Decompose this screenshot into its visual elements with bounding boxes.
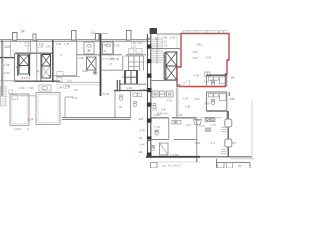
red unit outline — [177, 34, 229, 87]
svg-text:2.0: 2.0 — [74, 89, 78, 92]
wire wall y82.5 — [56, 82, 100, 84]
bath box 1 — [84, 42, 94, 54]
shower R1 — [220, 77, 227, 84]
bathroom R2 bottom wall — [207, 110, 228, 112]
bay window bump 2 — [225, 139, 232, 147]
fixture right cell b — [138, 93, 142, 97]
oval fixture — [63, 85, 69, 88]
svg-text:1.4: 1.4 — [211, 141, 215, 145]
svg-text:0.40: 0.40 — [19, 86, 25, 90]
terrace 1 inner border — [12, 96, 27, 124]
wire dark wall y53.2 — [15, 52, 53, 54]
partial partition L — [65, 97, 74, 118]
svg-text:1:100 . . . . m: 1:100 . . . . m — [14, 127, 29, 131]
big lower-left room bottom double wall — [62, 118, 131, 120]
bath box 2 sink — [106, 44, 110, 47]
bath box 1 sink — [87, 44, 91, 47]
toilet cell 1 — [120, 95, 123, 100]
svg-text:0.4 0.4: 0.4 0.4 — [22, 76, 31, 80]
service shaft small boxes — [129, 49, 135, 54]
kitchen marks — [172, 121, 181, 125]
elevator shaft 0 with X — [19, 55, 29, 66]
kitchen cluster box 3 — [167, 91, 174, 97]
svg-text:2.89: 2.89 — [141, 88, 147, 92]
wall y139.5 — [147, 139, 197, 141]
shower box with diagonal — [160, 143, 169, 155]
elevator shaft C upper with X — [166, 52, 177, 66]
wire interior wall y82 mid-left — [15, 80, 61, 82]
wire window ticks along top wall — [2, 40, 146, 42]
wire wall y70.2 — [101, 69, 123, 71]
wire wall y54.8 right part — [102, 54, 147, 56]
svg-text:N5Z: N5Z — [195, 141, 201, 145]
bath box 1 cross — [88, 49, 91, 52]
bathroom R2 outline — [207, 92, 228, 111]
sink oval — [42, 86, 48, 90]
fixture right cell a — [133, 93, 137, 97]
svg-text:0.46: 0.46 — [161, 109, 166, 112]
svg-text:3.04: 3.04 — [5, 45, 11, 49]
stair top dark block — [150, 28, 157, 34]
fixture cluster 2 — [57, 78, 62, 82]
wire dark double wall x100.5 — [100, 34, 102, 97]
wire room divider x10.5 — [10, 40, 12, 57]
chimney protrusion 4 — [96, 34, 100, 41]
toilet mid room — [153, 104, 156, 109]
shower R2 — [220, 94, 227, 101]
svg-text:0.40: 0.40 — [56, 42, 62, 46]
svg-text:2.99: 2.99 — [78, 56, 84, 60]
wire dark wall x52.8 — [52, 40, 54, 82]
wire interior wall y80 left — [0, 80, 15, 82]
svg-text:1.03: 1.03 — [114, 44, 120, 48]
svg-text:0.27: 0.27 — [199, 124, 205, 128]
lower apartment wall y117.8 — [150, 117, 196, 119]
wire wall x122.8 — [122, 56, 124, 70]
door swing inside red unit — [184, 81, 190, 87]
svg-text:0.46: 0.46 — [193, 50, 199, 54]
elevator shaft C lower with X — [166, 66, 177, 80]
svg-text:47: 47 — [109, 62, 113, 66]
wire wall y76.5 — [56, 76, 80, 78]
svg-text:0.46: 0.46 — [140, 143, 146, 147]
red tick right wall — [228, 92, 230, 96]
lower strip box — [217, 163, 224, 168]
faint neighbour bottom line — [231, 158, 254, 160]
window dashes right wall upper — [221, 128, 227, 132]
wire wall to terrace — [20, 95, 36, 97]
stair mid divider — [156, 38, 158, 64]
toilet R2 — [212, 100, 215, 105]
gray box above red line — [183, 31, 189, 34]
svg-text:4.78: 4.78 — [140, 129, 146, 133]
svg-text:2.88: 2.88 — [154, 113, 160, 117]
terrace inner border — [38, 95, 58, 123]
bath box 2 — [103, 42, 114, 54]
svg-text:7.73: 7.73 — [154, 125, 160, 129]
elevator shaft 0 side bars — [18, 53, 30, 76]
svg-text:0.43: 0.43 — [170, 36, 176, 40]
wire left outer wall — [1, 40, 3, 96]
wall x168.8 — [168, 118, 170, 140]
wire dark double wall x118 — [116, 80, 118, 92]
wire wall y80.5 center — [150, 80, 177, 82]
bottom dark wall — [146, 156, 200, 158]
wire corridor wall x36.8 lower — [36, 53, 38, 81]
star symbol — [93, 70, 98, 75]
elevator shaft 0 lower box — [19, 66, 29, 75]
svg-text:1.75: 1.75 — [211, 123, 217, 127]
wall x196.8 — [196, 118, 198, 157]
wire left wall inner line — [2, 40, 4, 96]
svg-text:8.79: 8.79 — [205, 102, 211, 106]
wire room divider x28 — [27, 40, 29, 53]
wire wall y48 — [150, 48, 180, 50]
svg-text:04Z: 04Z — [230, 97, 235, 101]
terrace rectangle — [36, 93, 60, 125]
sink console top — [39, 85, 51, 91]
svg-text:2.08: 2.08 — [162, 36, 168, 40]
bathroom R2 fixtures — [209, 94, 219, 97]
svg-text:10: 10 — [139, 136, 143, 140]
wire divider x177 — [176, 88, 178, 118]
lower strip box 2 — [227, 163, 233, 168]
wire divider x112.5 — [112, 40, 114, 55]
svg-text:0.40: 0.40 — [16, 65, 22, 69]
toilet lower 2 — [151, 146, 154, 151]
wire top wall right section — [157, 33, 181, 35]
toilet R1 — [212, 81, 215, 86]
window ticks bottom wall — [60, 118, 128, 120]
wire room divider x36.8 — [36, 40, 38, 53]
svg-text:1.4 Pla...: 1.4 Pla... — [170, 153, 181, 157]
wire divider x130.5 — [130, 91, 132, 119]
bathroom R1 left wall — [206, 75, 208, 86]
svg-text:1.86: 1.86 — [185, 106, 190, 109]
duct grid dark bars — [125, 71, 137, 85]
wire wall x115 — [114, 91, 116, 119]
svg-text:1.64: 1.64 — [183, 98, 188, 101]
wire room divider x76.8 — [76, 40, 78, 76]
svg-text:4.40: 4.40 — [117, 82, 123, 86]
right edge faint neighbour wall — [251, 100, 253, 159]
bay window bump 1 — [225, 119, 232, 127]
svg-text:1.04: 1.04 — [195, 97, 201, 101]
svg-text:04: 04 — [111, 57, 115, 61]
small closet rect — [25, 42, 30, 46]
svg-text:2.06: 2.06 — [127, 86, 133, 90]
wire shaft side bar — [163, 52, 165, 80]
chimney protrusion 5 — [127, 31, 132, 41]
lower strip wall — [217, 159, 251, 168]
svg-text:0.4: 0.4 — [162, 164, 166, 168]
sink trapezoid lower apartment — [194, 120, 202, 125]
svg-text:04: 04 — [92, 31, 96, 35]
service shaft horizontals — [125, 56, 144, 67]
svg-text:0.43: 0.43 — [206, 56, 212, 60]
wire R2 to bay connector — [226, 111, 228, 119]
svg-text:6.10: 6.10 — [67, 80, 72, 83]
window dashes right wall lower — [221, 150, 227, 154]
svg-text:2.78: 2.78 — [167, 100, 172, 103]
wire gray parapet above red unit — [183, 31, 228, 34]
svg-text:1.03: 1.03 — [138, 42, 143, 45]
bathroom R1 right wall — [226, 75, 228, 86]
small room right of stairs — [158, 34, 178, 49]
wire half wall y47.5 — [0, 47, 11, 49]
wire lower wall right ext — [200, 117, 222, 119]
lower strip stub box — [151, 162, 158, 168]
wire wall continuation below — [196, 157, 198, 162]
wire wall y54.8 left part — [77, 54, 100, 56]
bathroom R1 top wall — [206, 74, 227, 76]
bathroom R1 fixtures — [209, 77, 219, 80]
svg-text:2.40: 2.40 — [46, 45, 52, 49]
terrace 1 top closet — [12, 95, 18, 99]
svg-text:4.05: 4.05 — [194, 74, 200, 78]
svg-text:1.73: 1.73 — [72, 96, 78, 100]
svg-text:1.10: 1.10 — [131, 46, 136, 49]
svg-text:2.62: 2.62 — [193, 56, 199, 60]
svg-text:04: 04 — [21, 30, 25, 34]
svg-text:4.76: 4.76 — [101, 43, 107, 47]
duct box grid — [125, 71, 138, 85]
sink right area — [206, 128, 211, 131]
bottom wall right part — [200, 156, 252, 158]
kitchen cluster box 1 — [152, 91, 158, 97]
svg-text:1.40: 1.40 — [186, 123, 192, 127]
svg-text:0.48: 0.48 — [65, 86, 70, 89]
balcony ladder strip — [1, 87, 7, 107]
service shaft small box 2 — [136, 49, 142, 54]
wire shaft left wall x40.8 — [40, 53, 42, 81]
svg-text:1.96: 1.96 — [4, 63, 10, 67]
toilet cell 2 — [134, 102, 137, 107]
svg-text:1.46: 1.46 — [57, 86, 63, 90]
column blocks on central wall — [147, 45, 152, 157]
wire wall y75.8 — [48, 75, 77, 77]
wire room divider x30.5 — [30, 40, 32, 53]
svg-text:3.81: 3.81 — [196, 43, 202, 47]
gray box above red line right — [219, 31, 224, 34]
elevator shaft A lower box — [42, 66, 51, 78]
svg-text:0.40: 0.40 — [4, 71, 10, 75]
svg-text:104: 104 — [139, 117, 144, 121]
svg-text:0.4 1.4 0.4: 0.4 1.4 0.4 — [168, 164, 181, 168]
wire dark wall y90.5 — [114, 90, 147, 92]
terrace 1 outline — [10, 94, 29, 125]
svg-text:2.08: 2.08 — [146, 36, 152, 40]
service shaft verticals — [129, 56, 144, 71]
wire interior wall y58 left — [0, 57, 15, 59]
svg-text:5.19: 5.19 — [103, 92, 109, 96]
right outer wall lower — [227, 111, 229, 157]
wire top outer wall of main block — [0, 39, 150, 41]
toilet lower 1 — [155, 130, 158, 135]
wire lower strip line — [158, 161, 200, 163]
wire central double wall right line — [150, 34, 152, 158]
small boxes left top — [9, 90, 13, 93]
wire divider x14.5 — [14, 53, 16, 81]
svg-text:04: 04 — [238, 164, 242, 168]
cabinet in red unit — [205, 72, 211, 77]
kitchen cluster box 2 — [160, 91, 166, 97]
svg-text:1.10: 1.10 — [39, 43, 44, 46]
fixture cluster 1 — [57, 72, 63, 76]
washer icons — [205, 118, 215, 122]
chimney protrusion 2 — [33, 34, 36, 40]
wire wall y84.2 — [121, 83, 147, 85]
svg-text:7.93: 7.93 — [28, 86, 34, 90]
svg-text:1.80: 1.80 — [177, 113, 183, 117]
svg-text:04: 04 — [139, 150, 143, 154]
elevator shaft A with double X — [42, 55, 51, 67]
shaft A lower diagonal — [42, 66, 51, 78]
chimney protrusion 1 — [13, 33, 18, 41]
svg-text:04: 04 — [231, 76, 235, 80]
shaft B with X — [87, 57, 97, 70]
svg-text:1.46: 1.46 — [64, 43, 69, 46]
wire central double wall left line — [147, 34, 149, 158]
teal tick on red line — [177, 85, 182, 86]
chimney protrusion 3 — [72, 31, 77, 41]
wire wall y84.8 — [56, 84, 100, 86]
stair treads — [151, 38, 163, 63]
wire top outer wall inner line — [0, 40, 150, 42]
svg-text:1.04: 1.04 — [28, 117, 34, 121]
wire stub y33.5 — [101, 33, 109, 35]
svg-text:04: 04 — [122, 75, 126, 79]
